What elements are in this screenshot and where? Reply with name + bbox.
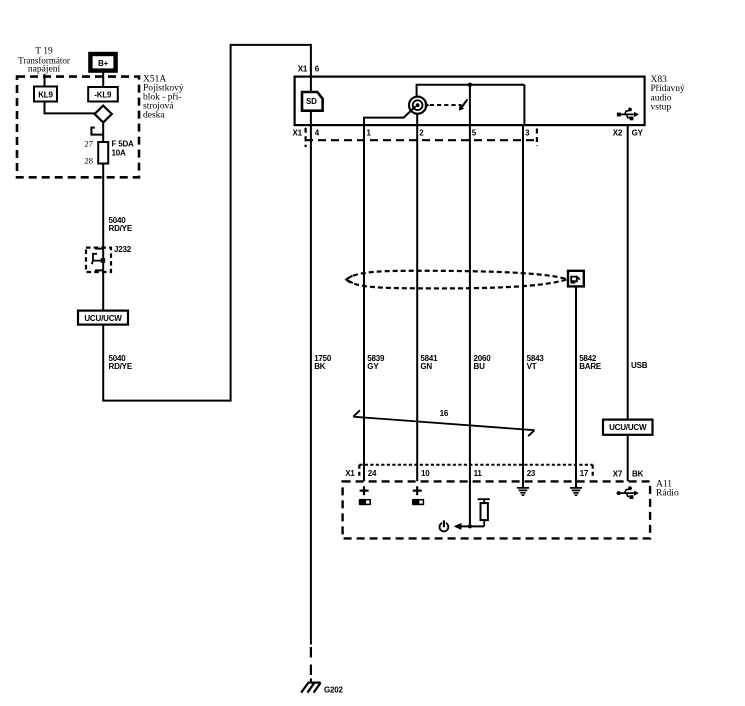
svg-text:USB: USB: [631, 361, 648, 370]
svg-text:23: 23: [527, 469, 536, 478]
svg-text:X1: X1: [293, 128, 303, 137]
svg-text:VT: VT: [527, 362, 537, 371]
svg-text:28: 28: [85, 155, 94, 165]
svg-text:5: 5: [472, 128, 477, 137]
svg-text:2: 2: [419, 128, 424, 137]
svg-text:17: 17: [580, 469, 589, 478]
svg-text:RD/YE: RD/YE: [109, 362, 133, 371]
svg-text:BK: BK: [314, 362, 326, 371]
svg-text:G202: G202: [324, 686, 344, 695]
svg-text:6: 6: [315, 65, 320, 74]
svg-text:vstup: vstup: [651, 103, 672, 113]
svg-text:B+: B+: [98, 59, 109, 68]
svg-text:GY: GY: [367, 362, 379, 371]
svg-text:KL9: KL9: [38, 90, 53, 99]
svg-text:BK: BK: [632, 470, 644, 479]
svg-text:napájení: napájení: [28, 65, 61, 75]
svg-text:GY: GY: [632, 129, 644, 138]
svg-text:3: 3: [525, 128, 530, 137]
svg-text:10A: 10A: [112, 149, 126, 158]
svg-text:RD/YE: RD/YE: [109, 224, 133, 233]
svg-text:UCU/UCW: UCU/UCW: [609, 423, 647, 432]
svg-text:J232: J232: [114, 245, 132, 254]
svg-text:X7: X7: [613, 470, 623, 479]
svg-text:24: 24: [368, 469, 377, 478]
svg-text:BARE: BARE: [579, 362, 602, 371]
svg-text:SD: SD: [306, 97, 317, 106]
svg-text:X1: X1: [345, 469, 355, 478]
svg-text:X2: X2: [613, 129, 623, 138]
svg-text:BU: BU: [474, 362, 486, 371]
svg-text:UCU/UCW: UCU/UCW: [84, 314, 122, 323]
svg-text:Rádio: Rádio: [656, 489, 679, 499]
svg-text:4: 4: [315, 128, 320, 137]
svg-text:GN: GN: [420, 362, 432, 371]
svg-text:F 5DA: F 5DA: [112, 140, 135, 149]
svg-text:16: 16: [440, 409, 449, 418]
svg-text:1: 1: [367, 128, 372, 137]
svg-text:10: 10: [421, 469, 430, 478]
svg-text:deska: deska: [143, 111, 165, 121]
svg-text:11: 11: [474, 469, 483, 478]
svg-text:-KL9: -KL9: [94, 91, 112, 100]
svg-text:X1: X1: [298, 65, 308, 74]
svg-text:27: 27: [85, 139, 94, 149]
